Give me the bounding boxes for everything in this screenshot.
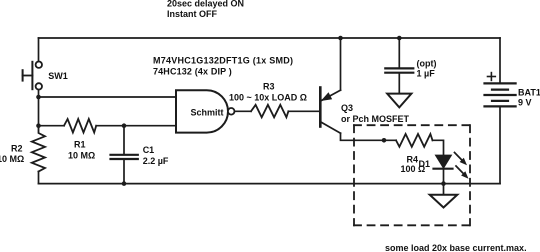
- svg-text:BAT1: BAT1: [518, 88, 540, 98]
- node C1 top junction: [122, 123, 127, 128]
- wire junction to R1: [39, 125, 65, 127]
- switch SW1: [23, 61, 42, 89]
- svg-text:SW1: SW1: [48, 71, 68, 81]
- svg-text:R3: R3: [263, 82, 275, 92]
- node C1 bottom junction: [122, 181, 127, 186]
- wire Q3 emitter to rail: [340, 38, 342, 90]
- wire battery top lead: [499, 38, 501, 82]
- svg-text:20sec delayed ON: 20sec delayed ON: [167, 0, 244, 9]
- wire R1 to C1 to gate input B: [96, 125, 176, 127]
- svg-text:R1: R1: [74, 140, 86, 150]
- resistor R4: [396, 134, 433, 147]
- svg-text:1 µF: 1 µF: [417, 69, 436, 79]
- capacitor C1: [111, 126, 138, 184]
- node input A junction: [36, 95, 41, 100]
- wire gate input A: [39, 96, 177, 98]
- svg-text:Instant OFF: Instant OFF: [167, 9, 217, 19]
- svg-text:9 V: 9 V: [518, 98, 532, 108]
- node LED rail junction: [441, 181, 446, 186]
- LED emission arrows: [455, 153, 469, 179]
- svg-text:C1: C1: [143, 145, 155, 155]
- wire SW1 bottom lead: [38, 90, 40, 126]
- svg-text:100 Ω: 100 Ω: [401, 164, 426, 174]
- LED D1: [434, 155, 453, 169]
- transistor Q3: [320, 88, 340, 134]
- battery BAT1: [485, 73, 516, 107]
- wire battery bottom lead: [499, 107, 501, 184]
- svg-text:10 MΩ: 10 MΩ: [0, 154, 24, 164]
- wire R4 to LED: [433, 140, 444, 155]
- svg-text:10 MΩ: 10 MΩ: [68, 150, 95, 160]
- wire bottom rail: [39, 183, 501, 185]
- load box dashed: [354, 125, 470, 225]
- svg-text:74HC132 (4x DIP ): 74HC132 (4x DIP ): [153, 67, 232, 77]
- resistor R3: [251, 105, 288, 118]
- ground load: [430, 195, 458, 208]
- wire R3 to base: [288, 110, 319, 112]
- resistor R1: [64, 119, 96, 133]
- wire R2 bottom lead: [38, 172, 40, 184]
- svg-text:Q3: Q3: [341, 103, 353, 113]
- svg-text:(opt): (opt): [417, 58, 437, 68]
- svg-text:some load 20x base current.max: some load 20x base current.max.: [385, 243, 527, 252]
- svg-text:or Pch MOSFET: or Pch MOSFET: [341, 114, 410, 124]
- svg-text:2.2 µF: 2.2 µF: [143, 156, 169, 166]
- svg-text:100 ~ 10x LOAD Ω: 100 ~ 10x LOAD Ω: [229, 92, 307, 102]
- node load wire junction: [382, 138, 387, 143]
- op-amp U1 NAND gate: [176, 90, 228, 132]
- wire Q3 collector to R4: [341, 133, 397, 140]
- wire LED to rail: [443, 169, 445, 184]
- wire gate output: [235, 110, 251, 112]
- svg-text:M74VHC1G132DFT1G (1x SMD): M74VHC1G132DFT1G (1x SMD): [153, 55, 293, 65]
- svg-text:R2: R2: [11, 144, 23, 154]
- svg-text:R4: R4: [407, 154, 419, 164]
- svg-text:Schmitt: Schmitt: [191, 107, 224, 117]
- U1 output bubble: [228, 108, 235, 115]
- wire SW1 top lead: [38, 38, 40, 61]
- capacitor C2 opt: [385, 38, 413, 93]
- ground C2: [387, 94, 411, 108]
- node C2 rail junction: [397, 36, 402, 41]
- node emitter rail junction: [338, 36, 343, 41]
- wire top rail: [39, 37, 501, 39]
- wire to ground: [443, 184, 445, 195]
- resistor R2: [32, 126, 45, 172]
- node RC junction: [36, 123, 41, 128]
